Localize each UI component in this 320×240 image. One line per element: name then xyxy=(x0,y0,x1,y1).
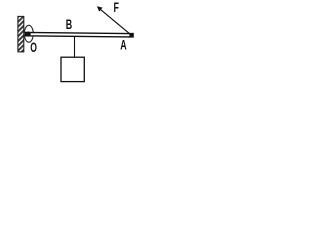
svg-text:B: B xyxy=(66,17,72,32)
force F shaft xyxy=(99,8,133,36)
string to weight xyxy=(74,36,76,57)
svg-text:F: F xyxy=(114,0,119,15)
beam OA xyxy=(26,32,133,37)
beam end solid tip xyxy=(129,34,133,38)
svg-text:O: O xyxy=(30,41,37,55)
svg-text:A: A xyxy=(120,38,127,53)
pivot pin O xyxy=(26,31,31,36)
weight box xyxy=(61,57,84,81)
wall (hatched support) xyxy=(18,16,24,52)
force F arrowhead xyxy=(97,6,103,11)
hinge bracket ellipse at O xyxy=(24,25,33,42)
